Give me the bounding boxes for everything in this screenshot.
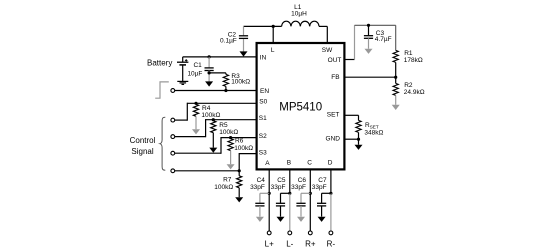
svg-text:R2: R2 [404, 82, 413, 89]
terminal: S3 input [171, 169, 175, 173]
svg-text:IN: IN [260, 55, 267, 62]
capacitor C2 [243, 26, 245, 35]
wire: L1 to SW drop [319, 25, 327, 27]
svg-text:100kΩ: 100kΩ [231, 79, 250, 86]
svg-text:A: A [265, 160, 270, 167]
wire: pin C down to junction [309, 169, 311, 193]
node: S3 / R7 junction [238, 169, 241, 172]
wire: S2 terminal to pin S2 [175, 152, 221, 154]
op-amp U1 MP5410 body [257, 43, 345, 169]
terminal: L- output [288, 231, 292, 235]
pulse waveform symbol [155, 82, 169, 98]
ground arrow below C4 [256, 217, 264, 222]
wire: output top rail [355, 24, 396, 26]
node: L pin / L1 left junction [272, 25, 275, 28]
wire: S3 terminal across [175, 170, 240, 172]
svg-text:10µF: 10µF [187, 70, 202, 77]
svg-text:33pF: 33pF [271, 184, 286, 191]
svg-text:100kΩ: 100kΩ [201, 112, 220, 119]
terminal: EN input [171, 89, 175, 93]
wire: OUT riser to output rail [354, 25, 356, 59]
wire: junction to R+ terminal [309, 193, 311, 231]
node: FB divider junction [394, 76, 397, 79]
wire: junction to R- terminal [330, 193, 332, 231]
svg-text:R7: R7 [223, 177, 232, 184]
node: R5 top on S1 wire [212, 118, 215, 121]
resistor R2 [395, 77, 397, 83]
wire: pin FB to divider [344, 76, 395, 78]
terminal: S2 input [171, 151, 175, 155]
ground arrow below C1 [205, 81, 213, 86]
ground arrow below GND pin [358, 139, 360, 145]
wire: pin A down to junction [268, 169, 270, 193]
svg-text:MP5410: MP5410 [279, 101, 322, 113]
capacitor C1 [208, 57, 210, 68]
capacitor C6 [301, 192, 310, 194]
svg-text:4.7µF: 4.7µF [375, 36, 392, 43]
svg-text:100kΩ: 100kΩ [214, 184, 233, 191]
wire: pin GND stub [344, 138, 358, 140]
resistor R4 [193, 104, 198, 116]
svg-text:33pF: 33pF [291, 184, 306, 191]
svg-text:B: B [287, 160, 291, 167]
svg-text:C7: C7 [318, 177, 327, 184]
svg-text:R-: R- [327, 239, 336, 248]
wire: down to pin L of U1 [272, 26, 274, 44]
resistor R3 [225, 73, 227, 75]
ground arrow below R7 [235, 197, 243, 202]
resistor R5 [211, 121, 216, 133]
wire: EN terminal to pin EN [175, 90, 257, 92]
capacitor C5 [281, 192, 290, 194]
terminal: S1 input [171, 135, 175, 139]
resistor R1 [395, 25, 397, 50]
svg-text:L-: L- [286, 239, 293, 248]
node: C6 junction [309, 192, 312, 195]
node: C3 top [367, 24, 370, 27]
capacitor C7 [322, 192, 331, 194]
svg-text:R6: R6 [235, 138, 244, 145]
wire: up to pin S3 [238, 153, 240, 171]
svg-text:Control: Control [130, 136, 156, 145]
ground arrow below C6 [297, 217, 305, 222]
svg-text:R5: R5 [219, 122, 228, 129]
resistor R6 [228, 139, 233, 151]
svg-text:D: D [328, 160, 333, 167]
capacitor C4 [260, 192, 269, 194]
ground arrow below C7 [318, 217, 326, 222]
ground (battery, earth bars) [177, 80, 188, 82]
wire: pin SET stub [344, 114, 358, 116]
terminal: S0 input [171, 118, 175, 122]
ground arrow below C2 [240, 51, 248, 56]
ground arrow below R5 [209, 148, 217, 153]
node: R3 bottom on EN wire [224, 89, 227, 92]
svg-text:C6: C6 [298, 177, 307, 184]
wire: junction to L+ terminal [268, 193, 270, 231]
node: C1 bottom [208, 71, 211, 74]
node: R4 top on S0 wire [194, 102, 197, 105]
svg-text:L: L [271, 47, 275, 54]
terminal: L+ output [267, 231, 271, 235]
svg-text:Signal: Signal [131, 147, 153, 156]
ground arrow below C3 [365, 49, 373, 54]
svg-text:GND: GND [326, 136, 341, 143]
resistor RSET [356, 120, 361, 132]
svg-text:348kΩ: 348kΩ [364, 130, 383, 137]
terminal: R- output [329, 231, 333, 235]
node: C5 junction [288, 192, 291, 195]
node: C1 top on IN rail [208, 55, 211, 58]
ground arrow below R6 [227, 164, 235, 169]
svg-text:FB: FB [331, 74, 339, 81]
node: C4 junction [268, 192, 271, 195]
svg-text:EN: EN [260, 88, 269, 95]
svg-text:R1: R1 [404, 50, 413, 57]
node: R6 top on S2 wire [229, 136, 232, 139]
svg-text:S2: S2 [259, 133, 267, 140]
svg-text:SW: SW [322, 47, 333, 54]
svg-text:SET: SET [327, 112, 340, 119]
svg-text:100kΩ: 100kΩ [219, 129, 238, 136]
svg-text:100kΩ: 100kΩ [234, 145, 253, 152]
svg-text:S1: S1 [259, 115, 267, 122]
svg-text:0.1µF: 0.1µF [220, 37, 237, 44]
capacitor C3 [368, 25, 370, 35]
svg-text:C1: C1 [193, 62, 202, 69]
wire: pin D down to junction [330, 169, 332, 193]
ground arrow below R4 [192, 129, 200, 134]
svg-text:C: C [307, 160, 312, 167]
svg-text:178kΩ: 178kΩ [404, 57, 423, 64]
ground arrow below R2 [392, 105, 400, 110]
svg-text:S0: S0 [259, 98, 267, 105]
svg-text:R+: R+ [305, 239, 316, 248]
svg-text:33pF: 33pF [250, 184, 265, 191]
svg-text:OUT: OUT [328, 57, 342, 64]
svg-text:24.9kΩ: 24.9kΩ [404, 89, 425, 96]
ground arrow below C5 [277, 217, 285, 222]
node: GND / RSET junction [357, 138, 360, 141]
wire: C2 top to L1 input node [244, 25, 282, 27]
svg-text:C4: C4 [257, 177, 266, 184]
svg-text:C5: C5 [277, 177, 286, 184]
wire: C1 bottom to R3 top [209, 72, 226, 74]
svg-text:S3: S3 [259, 149, 267, 156]
svg-text:L+: L+ [265, 239, 274, 248]
svg-text:Battery: Battery [147, 58, 172, 67]
wire: S0 terminal to pin S0 [175, 119, 188, 121]
terminal: R+ output [308, 231, 312, 235]
wire: junction to L- terminal [289, 193, 291, 231]
svg-text:33pF: 33pF [312, 184, 327, 191]
svg-text:10µH: 10µH [291, 10, 307, 17]
wire: battery to pin IN [183, 56, 257, 58]
wire: down to pin SW of U1 [326, 26, 328, 44]
brace for control signal inputs [160, 117, 165, 170]
wire: pin B down to junction [289, 169, 291, 193]
resistor R7 [238, 171, 240, 176]
battery BT1 [182, 57, 184, 62]
inductor L1 [282, 21, 319, 26]
wire: pin OUT stub [344, 59, 354, 61]
node: C7 junction [329, 192, 332, 195]
wire: S1 terminal to pin S1 [175, 136, 206, 138]
